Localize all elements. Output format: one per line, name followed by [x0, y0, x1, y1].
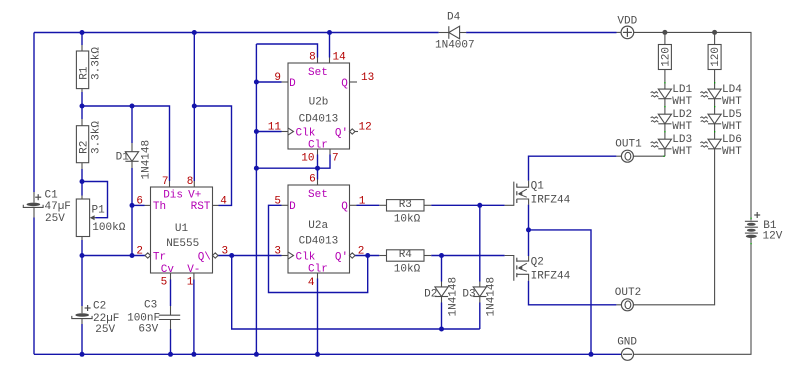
- diode D3 leads: [479, 282, 481, 287]
- led LD6: [708, 139, 721, 149]
- svg-text:Cv: Cv: [161, 264, 175, 276]
- svg-text:LD6: LD6: [722, 134, 742, 146]
- svg-text:Set: Set: [308, 189, 328, 201]
- node: Tr row at P1: [80, 253, 85, 258]
- led string 2 leads: [714, 70, 716, 90]
- svg-text:Clr: Clr: [308, 140, 328, 152]
- svg-text:LD2: LD2: [672, 109, 692, 121]
- svg-text:WHT: WHT: [722, 146, 742, 158]
- node: lamp rail at string 2: [712, 30, 717, 35]
- svg-text:2: 2: [358, 246, 365, 258]
- wire: P1 wiper loop: [82, 182, 108, 218]
- ic U1 Tr inversion diamond pin2: [145, 253, 151, 258]
- svg-text:Q: Q: [341, 201, 348, 213]
- svg-text:14: 14: [333, 52, 347, 64]
- svg-text:LD5: LD5: [722, 109, 742, 121]
- svg-text:12: 12: [359, 121, 372, 133]
- node: V+/RST junction: [192, 104, 197, 109]
- svg-text:7: 7: [162, 176, 169, 188]
- node: Clr10 junction: [315, 166, 320, 171]
- svg-text:25V: 25V: [45, 213, 65, 225]
- potentiometer P1 leads: [81, 196, 83, 200]
- svg-text:Q\: Q\: [198, 251, 211, 263]
- led string 1 leads: [664, 70, 666, 90]
- ic U2b pin stubs: [317, 58, 319, 64]
- node: ground rail at C2: [80, 352, 85, 357]
- svg-text:U2b: U2b: [309, 96, 329, 108]
- wire: R4 to Q2 gate: [431, 255, 504, 257]
- svg-text:120: 120: [660, 47, 672, 67]
- node: y106 at R1/R2: [80, 104, 85, 109]
- wire: R2 top lead: [81, 106, 83, 119]
- svg-text:C2: C2: [93, 301, 106, 313]
- svg-text:Q': Q': [335, 127, 348, 139]
- svg-text:6: 6: [136, 196, 143, 208]
- svg-text:Clk: Clk: [296, 127, 316, 139]
- svg-text:5: 5: [274, 196, 281, 208]
- svg-text:VDD: VDD: [617, 16, 637, 28]
- svg-text:10kΩ: 10kΩ: [394, 213, 421, 225]
- ic U2a CD4013 body: [288, 185, 350, 273]
- svg-text:10kΩ: 10kΩ: [394, 264, 421, 276]
- wire: U2a Q2 out to R4: [355, 255, 380, 257]
- wire: D3 bottom lead to bus: [479, 303, 481, 330]
- wire: left supply rail upper: [33, 33, 35, 193]
- wire: VDD port to lamp rail (gray): [634, 32, 751, 220]
- ic U2b Qbar diamond pin12: [350, 129, 356, 134]
- battery B1: [745, 220, 758, 222]
- port OUT2: [621, 299, 633, 311]
- svg-text:8: 8: [309, 52, 316, 64]
- diode D1 leads: [131, 143, 133, 152]
- ic U2a Qbar diamond pin2: [350, 253, 356, 258]
- svg-text:13: 13: [361, 72, 374, 84]
- node: ground rail at mosfet link: [589, 352, 594, 357]
- wire: D2 column from R4 node: [441, 256, 443, 282]
- diode D1: [125, 152, 138, 162]
- resistor R6 120 lamp string 2: [714, 32, 716, 44]
- transistor Q2 IRFZ44 nmos: [505, 256, 514, 281]
- svg-text:R1: R1: [78, 66, 90, 80]
- svg-text:WHT: WHT: [672, 146, 692, 158]
- node: diode bus at D2: [439, 327, 444, 332]
- wire: bottom ground rail: [34, 353, 621, 355]
- wire: U2a Q1 out to R3: [357, 204, 380, 206]
- node: ground rail at Clr4: [315, 352, 320, 357]
- svg-text:WHT: WHT: [722, 96, 742, 108]
- svg-text:3: 3: [274, 246, 281, 258]
- node: U2b rail at D9: [254, 80, 259, 85]
- wire: RST to V+ node: [194, 106, 231, 205]
- diode D4 leads: [439, 32, 449, 34]
- wire: Cv column below C3: [170, 329, 172, 354]
- node: R4/D2 junction: [439, 253, 444, 258]
- wire: Q1 source to mid node: [528, 205, 530, 230]
- svg-text:1: 1: [359, 196, 366, 208]
- resistor R3: [387, 200, 425, 211]
- svg-text:47µF: 47µF: [45, 201, 71, 213]
- wire: R3 to Q1 gate: [431, 204, 504, 206]
- svg-text:4: 4: [308, 277, 315, 289]
- wire: U1 Q out to U2a Clk: [218, 255, 282, 257]
- node: Tr row at D1: [130, 253, 135, 258]
- diode D3: [473, 287, 486, 297]
- svg-text:GND: GND: [617, 337, 637, 349]
- svg-text:NE555: NE555: [166, 238, 199, 250]
- node: green pin markers: [664, 82, 665, 83]
- diode D2: [435, 287, 448, 297]
- led LD3: [658, 139, 671, 149]
- wire: OUT2 to LED string 2 (gray): [633, 149, 714, 305]
- node: Th junction: [130, 203, 135, 208]
- capacitor C2 plus plate: [75, 313, 89, 317]
- wire: R1 top lead to rail: [81, 33, 83, 46]
- wire: top VDD rail left segment: [34, 32, 439, 34]
- wire: VDD stub left of port: [617, 31, 622, 33]
- diode D2 leads: [441, 282, 443, 287]
- wire: GND port to battery minus (gray): [634, 238, 752, 354]
- svg-text:P1: P1: [92, 205, 106, 217]
- node: R3/D3 junction: [477, 203, 482, 208]
- wire: left supply rail lower: [33, 218, 35, 355]
- node: top rail at U2b pin14: [327, 30, 332, 35]
- svg-text:25V: 25V: [95, 324, 115, 336]
- node: Q out branch: [229, 253, 234, 258]
- svg-text:R4: R4: [399, 249, 413, 261]
- wire: U2a Set pin 6 from ground node: [317, 168, 319, 179]
- port VDD: [621, 26, 634, 39]
- potentiometer P1: [76, 199, 89, 237]
- port OUT1: [621, 150, 633, 162]
- svg-text:LD1: LD1: [672, 84, 692, 96]
- wire: Tr row: [82, 255, 146, 257]
- svg-text:U2a: U2a: [308, 220, 328, 232]
- svg-text:R2: R2: [78, 141, 90, 154]
- svg-text:Dis: Dis: [163, 190, 183, 202]
- capacitor C2 minus plate: [72, 316, 92, 319]
- svg-text:V-: V-: [187, 264, 200, 276]
- svg-text:CD4013: CD4013: [299, 113, 339, 125]
- svg-text:Q': Q': [335, 251, 348, 263]
- resistor R3 leads: [379, 204, 386, 206]
- wire: top VDD rail right of D4: [466, 32, 616, 34]
- svg-text:5: 5: [161, 277, 168, 289]
- svg-text:100kΩ: 100kΩ: [92, 222, 125, 234]
- resistor R4 leads: [379, 255, 386, 257]
- wire: D3 column from R3 node: [479, 205, 481, 281]
- node: R2/P1 junction: [80, 179, 85, 184]
- node: U2b rail at Clr row: [254, 166, 259, 171]
- svg-text:OUT2: OUT2: [615, 287, 641, 299]
- capacitor C1 minus plate: [23, 205, 43, 208]
- svg-text:4: 4: [220, 196, 227, 208]
- led LD1: [658, 89, 671, 99]
- svg-text:Clr: Clr: [308, 264, 328, 276]
- node: lamp rail at string 1: [662, 30, 667, 35]
- wire: U2b pin14 to top rail: [329, 33, 331, 58]
- svg-text:Q: Q: [341, 78, 348, 90]
- capacitor C1 leads: [33, 192, 35, 203]
- led LD4: [708, 89, 721, 99]
- port GND: [622, 348, 634, 360]
- wire: U2b D pin 9 stub: [256, 81, 281, 83]
- potentiometer P1 wiper arrow: [91, 217, 96, 219]
- wire: P1 bottom to Tr node: [81, 240, 83, 256]
- svg-text:2: 2: [136, 246, 143, 258]
- svg-text:1N4148: 1N4148: [141, 140, 153, 180]
- svg-text:CD4013: CD4013: [299, 235, 339, 247]
- svg-text:D2: D2: [424, 289, 437, 301]
- svg-text:LD3: LD3: [672, 134, 692, 146]
- svg-text:10: 10: [301, 153, 314, 165]
- capacitor C3 leads: [170, 306, 172, 315]
- svg-text:WHT: WHT: [672, 96, 692, 108]
- svg-text:Clk: Clk: [296, 251, 316, 263]
- node: U2b rail at Clk11: [254, 129, 259, 134]
- svg-text:Q1: Q1: [531, 180, 545, 192]
- node: ground rail at C3: [168, 352, 173, 357]
- wire: U2a D feedback loop: [269, 205, 368, 292]
- svg-text:R3: R3: [399, 199, 412, 211]
- wire: U2b input ground rail: [255, 44, 257, 354]
- resistor R2: [76, 126, 88, 163]
- wire: U2b Clr pin10: [317, 155, 319, 169]
- wire: C2 column upper: [81, 256, 83, 307]
- ic U1 Q inversion diamond pin3: [213, 253, 219, 258]
- svg-text:IRFZ44: IRFZ44: [531, 195, 571, 207]
- svg-text:LD4: LD4: [722, 84, 742, 96]
- node: ground rail at U2b rail: [254, 352, 259, 357]
- svg-text:Tr: Tr: [153, 251, 166, 263]
- wire: ground link row y168: [256, 167, 317, 169]
- node: top rail at V+ column: [192, 30, 197, 35]
- wire: U2b Set pin 8 link: [256, 44, 317, 58]
- svg-text:7: 7: [332, 153, 339, 165]
- ic U1 pin stubs gray: [169, 181, 171, 187]
- battery B1 polarity plus: [754, 214, 760, 216]
- wire: D1 column upper: [131, 106, 133, 143]
- svg-text:3: 3: [222, 246, 229, 258]
- wire: D2 bottom to bus: [441, 303, 443, 330]
- resistor R1: [76, 51, 88, 89]
- svg-text:C3: C3: [144, 300, 157, 312]
- svg-text:IRFZ44: IRFZ44: [531, 271, 571, 283]
- wire: Q branch down to diode bus: [232, 256, 480, 330]
- svg-text:OUT1: OUT1: [615, 139, 642, 151]
- ic U2b CD4013 body: [288, 63, 350, 149]
- resistor R2 leads: [81, 119, 83, 126]
- svg-text:D1: D1: [116, 152, 130, 164]
- svg-text:V+: V+: [188, 190, 201, 202]
- svg-text:8: 8: [187, 176, 194, 188]
- led LD2: [658, 114, 671, 124]
- ic U1 NE555 body: [151, 187, 213, 273]
- capacitor C2 leads: [81, 306, 83, 313]
- node: ground rail at V-: [191, 352, 196, 357]
- wire: P1 top lead: [81, 182, 83, 196]
- wire: node row y106 to Dis pin: [82, 106, 170, 181]
- wire: V+ rail from top to pin 8: [193, 33, 195, 182]
- wire: OUT1 stub to LED string 1: [633, 155, 665, 157]
- svg-text:Q2: Q2: [531, 256, 544, 268]
- capacitor C1 polarity plus: [35, 196, 41, 198]
- resistor R5 120 lamp string 1: [664, 32, 666, 44]
- capacitor C2 polarity plus: [85, 307, 91, 309]
- svg-text:U1: U1: [175, 223, 189, 235]
- ic U2a clock mark: [288, 252, 294, 259]
- svg-text:6: 6: [309, 174, 316, 186]
- svg-text:3.3kΩ: 3.3kΩ: [91, 47, 103, 80]
- wire: U2a Clr pin4 to ground rail: [317, 279, 319, 355]
- svg-text:D: D: [289, 78, 296, 90]
- svg-text:63V: 63V: [138, 324, 158, 336]
- wire: U2b pin7 to Clr node: [318, 155, 331, 169]
- svg-text:100nF: 100nF: [127, 312, 160, 324]
- wire: C2 column lower: [81, 324, 83, 354]
- wire: D1 column lower to Th/Tr nodes: [131, 168, 133, 256]
- wire: V- column to ground rail: [193, 280, 195, 355]
- svg-text:11: 11: [268, 121, 282, 133]
- svg-text:D4: D4: [447, 11, 461, 23]
- wire: Q2 drain from mid node: [528, 230, 530, 256]
- wire: R1 bottom to node: [81, 92, 83, 106]
- led LD5: [708, 114, 721, 124]
- wire: OUT2 stub: [616, 304, 621, 306]
- svg-text:D: D: [289, 201, 296, 213]
- ic U2a pin stubs: [317, 180, 319, 186]
- wire: Th stub: [132, 204, 145, 206]
- capacitor C3 plates: [159, 314, 180, 316]
- node: y106 at D1: [130, 104, 135, 109]
- wire: Q2 source to OUT2 row: [529, 281, 617, 305]
- resistor R4: [387, 250, 425, 261]
- svg-text:1N4007: 1N4007: [435, 40, 475, 52]
- diode D4 pointing left: [449, 26, 460, 39]
- svg-text:Th: Th: [153, 201, 166, 213]
- svg-text:WHT: WHT: [722, 121, 742, 133]
- node: U2a Q2 feedback: [365, 253, 370, 258]
- wire: mid node to ground rail: [529, 230, 592, 354]
- wire: Cv column above C3: [170, 280, 172, 307]
- node: Q1 source Q2 drain: [526, 227, 531, 232]
- wire: U2b Clk pin 11 stub: [256, 131, 281, 133]
- svg-text:RST: RST: [191, 201, 211, 213]
- svg-text:1N4148: 1N4148: [447, 277, 459, 317]
- wire: Q1 drain to OUT1 row: [529, 156, 617, 181]
- svg-text:3.3kΩ: 3.3kΩ: [91, 121, 103, 154]
- svg-text:12V: 12V: [763, 230, 783, 242]
- svg-text:Set: Set: [308, 67, 328, 79]
- transistor Q1 IRFZ44 nmos: [505, 182, 514, 206]
- svg-text:120: 120: [710, 47, 722, 67]
- svg-text:1N4148: 1N4148: [486, 277, 498, 317]
- svg-text:WHT: WHT: [672, 121, 692, 133]
- capacitor C1 plus plate: [27, 203, 41, 207]
- svg-text:9: 9: [274, 72, 281, 84]
- svg-text:C1: C1: [45, 190, 59, 202]
- svg-text:D3: D3: [462, 289, 475, 301]
- ic U2b clock mark: [288, 128, 294, 135]
- wire: OUT1 blue stub: [616, 155, 621, 157]
- svg-text:1: 1: [187, 277, 194, 289]
- node: top rail at R1: [80, 30, 85, 35]
- resistor R1 leads: [81, 45, 83, 51]
- wire: R2 bottom lead to P1 node: [81, 169, 83, 182]
